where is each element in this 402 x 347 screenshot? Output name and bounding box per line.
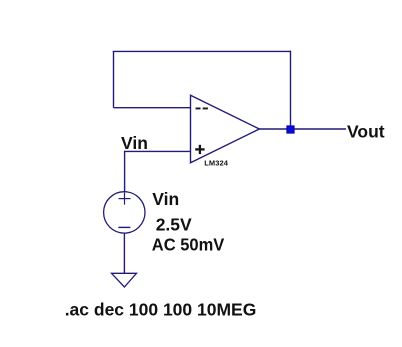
op-amp inverting marker dashes: [196, 108, 208, 110]
op-amp U1 triangle: [191, 95, 260, 163]
wire feedback left vertical: [113, 51, 115, 107]
svg-text:Vin: Vin: [121, 133, 148, 153]
wire feedback top horizontal: [113, 50, 291, 52]
wire Vin vertical to source: [124, 151, 126, 192]
svg-text:.ac dec 100 100 10MEG: .ac dec 100 100 10MEG: [65, 299, 257, 319]
voltage source plus marker: [119, 193, 131, 205]
svg-text:Vin: Vin: [152, 189, 179, 209]
op-amp non-inverting plus marker: [195, 145, 204, 154]
svg-text:LM324: LM324: [204, 159, 229, 168]
voltage source minus marker: [118, 226, 130, 228]
wire source to ground: [123, 233, 125, 273]
wire output: [259, 128, 346, 130]
svg-text:AC 50mV: AC 50mV: [152, 235, 225, 255]
wire inverting input: [114, 107, 191, 109]
svg-text:2.5V: 2.5V: [156, 214, 192, 234]
wire non-inverting input: [125, 150, 191, 152]
wire feedback right vertical: [290, 51, 292, 129]
ground: [112, 273, 137, 287]
svg-text:Vout: Vout: [347, 121, 385, 141]
node junction output square: [287, 126, 294, 133]
voltage source V1 circle: [104, 192, 145, 233]
